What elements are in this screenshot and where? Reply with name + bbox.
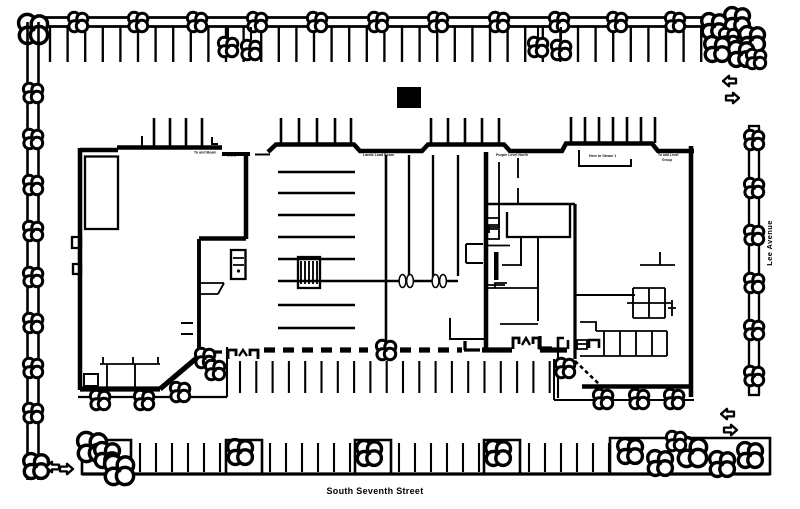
- room label bracket: [579, 150, 631, 166]
- small tick: [141, 136, 143, 146]
- left strip west line: [26, 22, 29, 480]
- dark duct bar: [494, 252, 499, 280]
- tree in planter: [666, 431, 685, 451]
- small bracket tick: [212, 137, 218, 144]
- tree in planter: [357, 441, 382, 466]
- partition vertical: [537, 237, 539, 321]
- tree on SE wall: [593, 389, 612, 409]
- tree on dashed wall: [376, 340, 395, 360]
- tree in NE cluster: [725, 8, 750, 33]
- tree stem: [560, 27, 562, 40]
- access arrow SW right: [60, 464, 73, 474]
- tree on right strip: [744, 273, 763, 293]
- tree in planter: [738, 443, 763, 468]
- roof stall ticks group 2: [281, 118, 351, 144]
- diagonal dashed wall SE: [575, 361, 599, 384]
- tree at building SW: [90, 390, 109, 410]
- tree at left strip bottom: [24, 454, 49, 479]
- access arrow NE right: [726, 93, 739, 103]
- dashed south wall west run: [264, 347, 368, 352]
- hanging tree: [218, 37, 237, 57]
- tree on left strip: [23, 221, 42, 241]
- west wall notch upper: [72, 237, 81, 248]
- dashed south wall east run: [400, 347, 462, 352]
- south parking stall ticks: [140, 443, 220, 472]
- interior thick wall horizontal: [199, 236, 246, 241]
- left section closet room: [85, 157, 118, 230]
- svg-text:Group: Group: [662, 158, 672, 162]
- roof stall ticks group 4: [571, 117, 655, 143]
- east wing room row: [580, 331, 667, 356]
- street tree on top strip: [549, 12, 568, 32]
- tree on left strip: [23, 313, 42, 333]
- door caret 1: [239, 350, 247, 356]
- garage door column west 2: [250, 350, 258, 359]
- tree on right strip: [744, 225, 763, 245]
- corner tree top-left: [19, 14, 48, 43]
- corner room at garage SE: [450, 318, 486, 339]
- tree in planter: [228, 440, 253, 465]
- garage column line C: [432, 155, 434, 281]
- top wall with raised stall bars: [268, 144, 694, 153]
- street tree on top strip: [307, 12, 326, 32]
- street tree on top strip: [128, 12, 147, 32]
- tree in planter: [618, 439, 643, 464]
- stall area east boundary: [557, 352, 559, 398]
- tree on left strip: [23, 267, 42, 287]
- hanging tree: [528, 37, 547, 57]
- tree in NE cluster: [746, 49, 765, 69]
- top wall west segment: [80, 148, 118, 153]
- tree in NE cluster: [719, 28, 738, 48]
- interior thick wall east of lobby: [244, 152, 249, 239]
- tree on right strip: [744, 366, 763, 386]
- tree on left strip: [23, 358, 42, 378]
- door jamb dark mark: [589, 340, 599, 348]
- top strip lower curb line: [30, 25, 718, 28]
- hanging tree: [241, 40, 260, 60]
- curb line below SW building: [78, 396, 227, 398]
- door ticks west of wall: [181, 323, 193, 334]
- L corner wall piece: [540, 336, 552, 348]
- scalloped partition bottom-left: [100, 357, 160, 364]
- garage door column east 2: [533, 338, 539, 349]
- stall area west boundary: [226, 347, 228, 397]
- tree on SE wall: [629, 389, 648, 409]
- south parking stall ticks: [399, 443, 479, 472]
- top strip upper curb line: [30, 16, 718, 19]
- access arrow SE right: [724, 425, 737, 435]
- right section upper partition: [486, 203, 575, 206]
- south curb line: [82, 472, 770, 475]
- right strip top cap: [748, 125, 760, 127]
- right section center wall: [573, 204, 576, 359]
- tree at building SW: [205, 360, 224, 380]
- south wall thick end: [540, 347, 567, 352]
- tree on right strip: [744, 178, 763, 198]
- partition stub: [520, 237, 522, 266]
- room west of wall: [466, 244, 483, 263]
- tree on left strip: [23, 403, 42, 423]
- broken thin wall: [517, 158, 519, 204]
- south wall solid segment: [482, 347, 512, 352]
- garage parking row lines: [278, 172, 355, 328]
- top parking stall ticks: [50, 27, 701, 62]
- tree in NE cluster: [702, 14, 727, 39]
- solid black marker square: [397, 87, 421, 108]
- stair treads: [233, 258, 244, 265]
- street tree on top strip: [247, 12, 266, 32]
- roof stall ticks group 3: [431, 118, 499, 144]
- left strip east line: [37, 22, 40, 480]
- door jambs east of wall: [487, 218, 499, 239]
- tree at building SW: [170, 382, 189, 402]
- west wall notch lower: [73, 264, 81, 274]
- door bowtie 2: [432, 275, 446, 288]
- planter box 5 (large): [610, 438, 770, 474]
- garage stair room: [298, 257, 320, 288]
- tree in NE cluster: [729, 42, 754, 67]
- svg-text:-- -- --: -- -- --: [227, 155, 237, 159]
- garage stair hatching: [301, 261, 317, 284]
- tree in planter: [648, 451, 673, 476]
- right section south thick wall: [582, 384, 691, 389]
- svg-text:Purple Level North: Purple Level North: [496, 153, 528, 157]
- svg-text:South Seventh Street: South Seventh Street: [326, 486, 423, 496]
- cross mark: [668, 300, 676, 316]
- partition stubs east of wall: [487, 246, 520, 286]
- south wall solid piece: [464, 341, 480, 350]
- tree in NE cluster: [705, 37, 730, 62]
- tree at building SW: [195, 348, 214, 368]
- door bowtie 1: [399, 275, 413, 288]
- street tree on top strip: [187, 12, 206, 32]
- bracket at SE of garage: [558, 338, 568, 349]
- right strip east line: [758, 126, 760, 395]
- garage entry door line: [255, 154, 270, 156]
- small room at SW interior: [84, 374, 98, 386]
- SE stall boundary: [553, 359, 555, 400]
- curb line below right section: [554, 399, 694, 401]
- svg-text:Lands Load Beam: Lands Load Beam: [363, 153, 394, 157]
- east wing partition: [575, 294, 635, 296]
- street tree on top strip: [428, 12, 447, 32]
- diagonal wall SW: [160, 356, 199, 389]
- top wall segment 2: [117, 145, 222, 150]
- right strip bottom cap: [748, 394, 760, 396]
- tree on right strip: [744, 130, 763, 150]
- street tree on top strip: [489, 12, 508, 32]
- connector to garage door line: [199, 350, 222, 353]
- partition horizontal: [500, 323, 538, 325]
- tree on left strip: [23, 175, 42, 195]
- interior thick wall vertical: [197, 239, 201, 354]
- svg-text:To and Beam: To and Beam: [194, 151, 216, 155]
- building east wall: [689, 146, 694, 397]
- planter box 2: [226, 440, 262, 474]
- access arrow SW left: [46, 462, 59, 472]
- south parking stall ticks: [270, 443, 350, 472]
- planter box 4: [484, 440, 520, 474]
- tree at building SW: [134, 390, 153, 410]
- tree in planter: [105, 455, 134, 484]
- street tree on top strip: [607, 12, 626, 32]
- access arrow SE left: [721, 409, 734, 419]
- bracket partition: [580, 322, 596, 331]
- stair dot: [237, 269, 240, 272]
- svg-text:Lee Avenue: Lee Avenue: [765, 220, 774, 266]
- roof stall ticks group 1: [154, 118, 202, 147]
- tree on left strip: [23, 83, 42, 103]
- parking stall ticks below garage: [240, 361, 550, 393]
- svg-text:To add Level: To add Level: [658, 153, 679, 157]
- door detail: [577, 340, 587, 349]
- tree in planter: [710, 452, 735, 477]
- door swing marks: [200, 283, 224, 294]
- planter box 1: [82, 440, 131, 474]
- top wall lowered segment: [222, 152, 250, 156]
- street tree on top strip: [665, 12, 684, 32]
- east wing small room grid: [627, 288, 671, 318]
- planter box 3: [355, 440, 391, 474]
- partition stubs: [107, 364, 135, 387]
- building south wall west: [80, 386, 160, 391]
- svg-text:Here to Steam 1: Here to Steam 1: [589, 154, 616, 158]
- right strip west line: [748, 126, 750, 395]
- door caret 2: [522, 338, 530, 345]
- garage column line B: [408, 155, 410, 281]
- right section west thick wall: [484, 152, 489, 352]
- street tree on top strip: [368, 12, 387, 32]
- upper room in right section: [507, 204, 570, 237]
- tree stem: [537, 27, 539, 38]
- tree on SE wall: [664, 389, 683, 409]
- east wing partition stub: [640, 252, 675, 265]
- garage column line A: [385, 155, 388, 347]
- access arrow NE left: [723, 76, 736, 86]
- stair room on wall: [231, 250, 246, 279]
- garage center aisle line: [278, 280, 458, 283]
- hanging tree: [551, 40, 570, 60]
- thin wall with hook: [489, 162, 499, 233]
- garage door column east 1: [513, 338, 519, 349]
- tree in NE cluster: [740, 27, 765, 52]
- mid partition with jog: [488, 283, 538, 288]
- tree on left strip: [23, 129, 42, 149]
- tree stem: [227, 27, 229, 38]
- tree in planter: [678, 437, 707, 466]
- tree at building SE inner: [555, 358, 574, 378]
- tree stem: [250, 27, 252, 40]
- tree in planter: [78, 432, 107, 461]
- building west wall: [78, 148, 83, 390]
- garage door column west 1: [228, 350, 236, 359]
- tree on right strip: [744, 320, 763, 340]
- south parking stall ticks: [529, 443, 609, 472]
- tree in planter: [95, 443, 120, 468]
- street tree on top strip: [68, 12, 87, 32]
- garage column line D: [457, 155, 459, 276]
- tree in planter: [486, 441, 511, 466]
